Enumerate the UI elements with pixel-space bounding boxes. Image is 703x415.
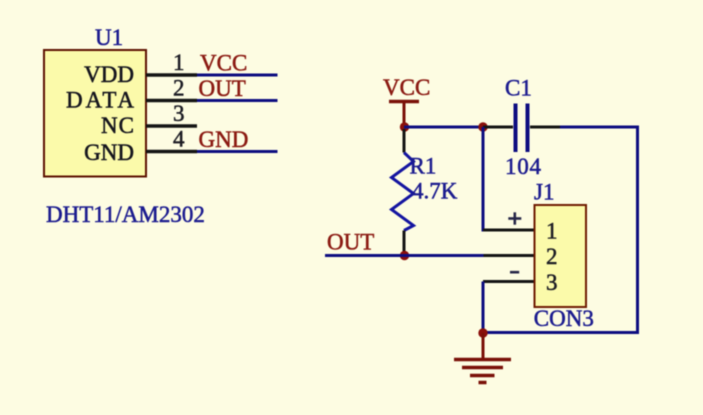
svg-text:2: 2 [546, 244, 558, 269]
svg-text:OUT: OUT [199, 76, 246, 101]
wire from U1 pin 2 [197, 99, 278, 102]
svg-text:3: 3 [173, 101, 185, 126]
U1 pin 3 (NC) [146, 124, 197, 128]
minus polarity label [510, 271, 519, 274]
C1 value label 104 [505, 154, 542, 179]
R1 designator label [410, 153, 437, 178]
J1 pin 1 stub [483, 229, 535, 232]
svg-text:R1: R1 [410, 153, 437, 178]
svg-text:2: 2 [173, 76, 185, 101]
net label OUT on pin 2 [199, 76, 246, 101]
J1 pin 2 stub [484, 254, 535, 257]
svg-text:1: 1 [173, 50, 185, 75]
svg-text:4.7K: 4.7K [412, 179, 458, 204]
U1 pin 4 number [173, 127, 185, 152]
capacitor C1 right pin [530, 126, 560, 129]
resistor R1 top pin [403, 129, 406, 153]
U1 pin 3 name NC [101, 113, 134, 138]
svg-text:4: 4 [173, 127, 185, 152]
wire bottom ground rail [483, 331, 638, 334]
J1 value label CON3 [534, 306, 594, 331]
wire VCC junction down to J1 pin 1 [483, 127, 484, 230]
J1 pin 3 number [546, 270, 558, 295]
connector J1 body [535, 205, 587, 307]
ground symbol bars [454, 360, 511, 383]
plus polarity label [508, 212, 521, 224]
U1 pin 2 number [173, 76, 185, 101]
wire C1 to right rail [560, 126, 638, 129]
node OUT junction [400, 251, 409, 260]
svg-text:DHT11/AM2302: DHT11/AM2302 [46, 202, 205, 227]
power symbol VCC bar [389, 100, 419, 104]
ground symbol stem [482, 333, 485, 359]
svg-text:OUT: OUT [327, 230, 374, 255]
U1 comment label DHT11/AM2302 [46, 202, 205, 227]
U1 pin 4 (GND) [146, 150, 197, 154]
svg-text:VDD: VDD [84, 62, 134, 87]
J1 designator label [534, 180, 554, 205]
node ground junction [478, 328, 487, 337]
J1 pin 1 number [546, 219, 558, 244]
svg-text:VCC: VCC [383, 75, 430, 100]
U1 pin 4 name GND [84, 140, 134, 165]
wire VCC rail horizontal [404, 126, 483, 129]
svg-text:GND: GND [84, 140, 134, 165]
wire from U1 pin 4 [197, 150, 278, 153]
svg-text:GND: GND [199, 127, 249, 152]
U1 pin 1 name VDD [84, 62, 134, 87]
svg-text:1: 1 [546, 219, 558, 244]
capacitor C1 plates [516, 104, 528, 153]
svg-text:CON3: CON3 [534, 306, 594, 331]
wire right vertical rail [636, 126, 639, 335]
svg-text:3: 3 [546, 270, 558, 295]
U1 pin 1 (VDD) [146, 73, 197, 77]
IC U1 body [44, 50, 146, 177]
U1 pin 3 number [173, 101, 185, 126]
svg-text:VCC: VCC [200, 51, 247, 76]
svg-text:U1: U1 [95, 25, 123, 50]
net label VCC on pin 1 [200, 51, 247, 76]
svg-text:J1: J1 [534, 180, 554, 205]
capacitor C1 left pin [483, 126, 513, 129]
J1 pin 2 number [546, 244, 558, 269]
U1 pin 1 number [173, 50, 185, 75]
U1 designator label [95, 25, 123, 50]
power symbol VCC stem [403, 102, 406, 128]
svg-text:C1: C1 [505, 76, 532, 101]
svg-text:104: 104 [505, 154, 542, 179]
R1 value label 4.7K [412, 179, 458, 204]
svg-text:NC: NC [101, 113, 134, 138]
U1 pin 2 (DATA) [146, 99, 197, 103]
node VCC junction [400, 122, 409, 131]
net label GND on pin 4 [199, 127, 249, 152]
net label OUT [327, 230, 374, 255]
power symbol VCC label [383, 75, 430, 100]
C1 designator label [505, 76, 532, 101]
wire J1 pin 3 down to ground rail [482, 282, 485, 333]
resistor R1 zigzag body [392, 153, 414, 231]
wire from U1 pin 1 [197, 74, 278, 77]
J1 pin 3 stub [483, 280, 535, 283]
resistor R1 bottom pin [403, 231, 406, 256]
U1 pin 2 name DATA [66, 88, 134, 113]
node capacitor branch junction [478, 122, 487, 131]
wire OUT horizontal [325, 254, 484, 257]
